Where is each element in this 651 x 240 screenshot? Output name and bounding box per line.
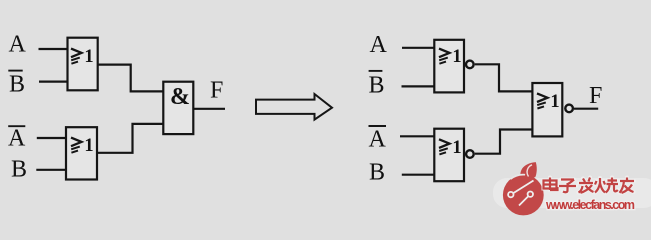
svg-text:F: F	[210, 77, 223, 103]
svg-text:B: B	[369, 73, 385, 99]
svg-text:B: B	[9, 72, 25, 98]
svg-text:A: A	[370, 32, 388, 58]
svg-text:www.elecfans.com: www.elecfans.com	[545, 198, 635, 212]
svg-text:A: A	[9, 32, 27, 58]
svg-text:&: &	[170, 84, 190, 110]
svg-text:A: A	[8, 126, 26, 152]
svg-text:B: B	[11, 157, 27, 183]
svg-text:B: B	[369, 160, 385, 186]
svg-text:A: A	[369, 127, 387, 153]
svg-text:F: F	[589, 83, 602, 109]
